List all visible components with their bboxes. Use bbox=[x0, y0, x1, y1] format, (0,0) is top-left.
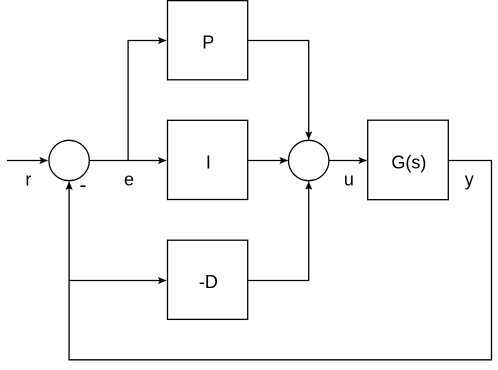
wire e branch to P bbox=[128, 41, 166, 161]
summing junction S1 bbox=[49, 140, 89, 180]
summing junction S2 bbox=[289, 140, 329, 180]
svg-text:y: y bbox=[465, 170, 474, 190]
wire feedback branch to -D bbox=[69, 280, 166, 282]
block -D bbox=[168, 240, 248, 319]
svg-text:r: r bbox=[25, 170, 31, 190]
svg-text:u: u bbox=[344, 170, 354, 190]
wire P output to S2 top bbox=[248, 41, 309, 140]
block I bbox=[168, 120, 248, 199]
wire feedback: G(s) output, down, along bottom, up to S1 bbox=[69, 161, 491, 360]
wire e: S1 to I bbox=[89, 160, 166, 162]
svg-text:-: - bbox=[80, 174, 87, 197]
block P bbox=[168, 1, 248, 80]
wire r input bbox=[7, 160, 47, 162]
wire -D output to S2 bottom bbox=[248, 182, 309, 281]
wire u: S2 to G(s) bbox=[329, 160, 367, 162]
svg-text:-D: -D bbox=[199, 272, 218, 292]
svg-text:I: I bbox=[206, 152, 211, 172]
svg-text:P: P bbox=[202, 32, 214, 52]
svg-text:G(s): G(s) bbox=[391, 152, 426, 172]
svg-text:e: e bbox=[124, 170, 134, 190]
block G(s) bbox=[368, 120, 449, 200]
wire I output to S2 bbox=[248, 160, 288, 162]
